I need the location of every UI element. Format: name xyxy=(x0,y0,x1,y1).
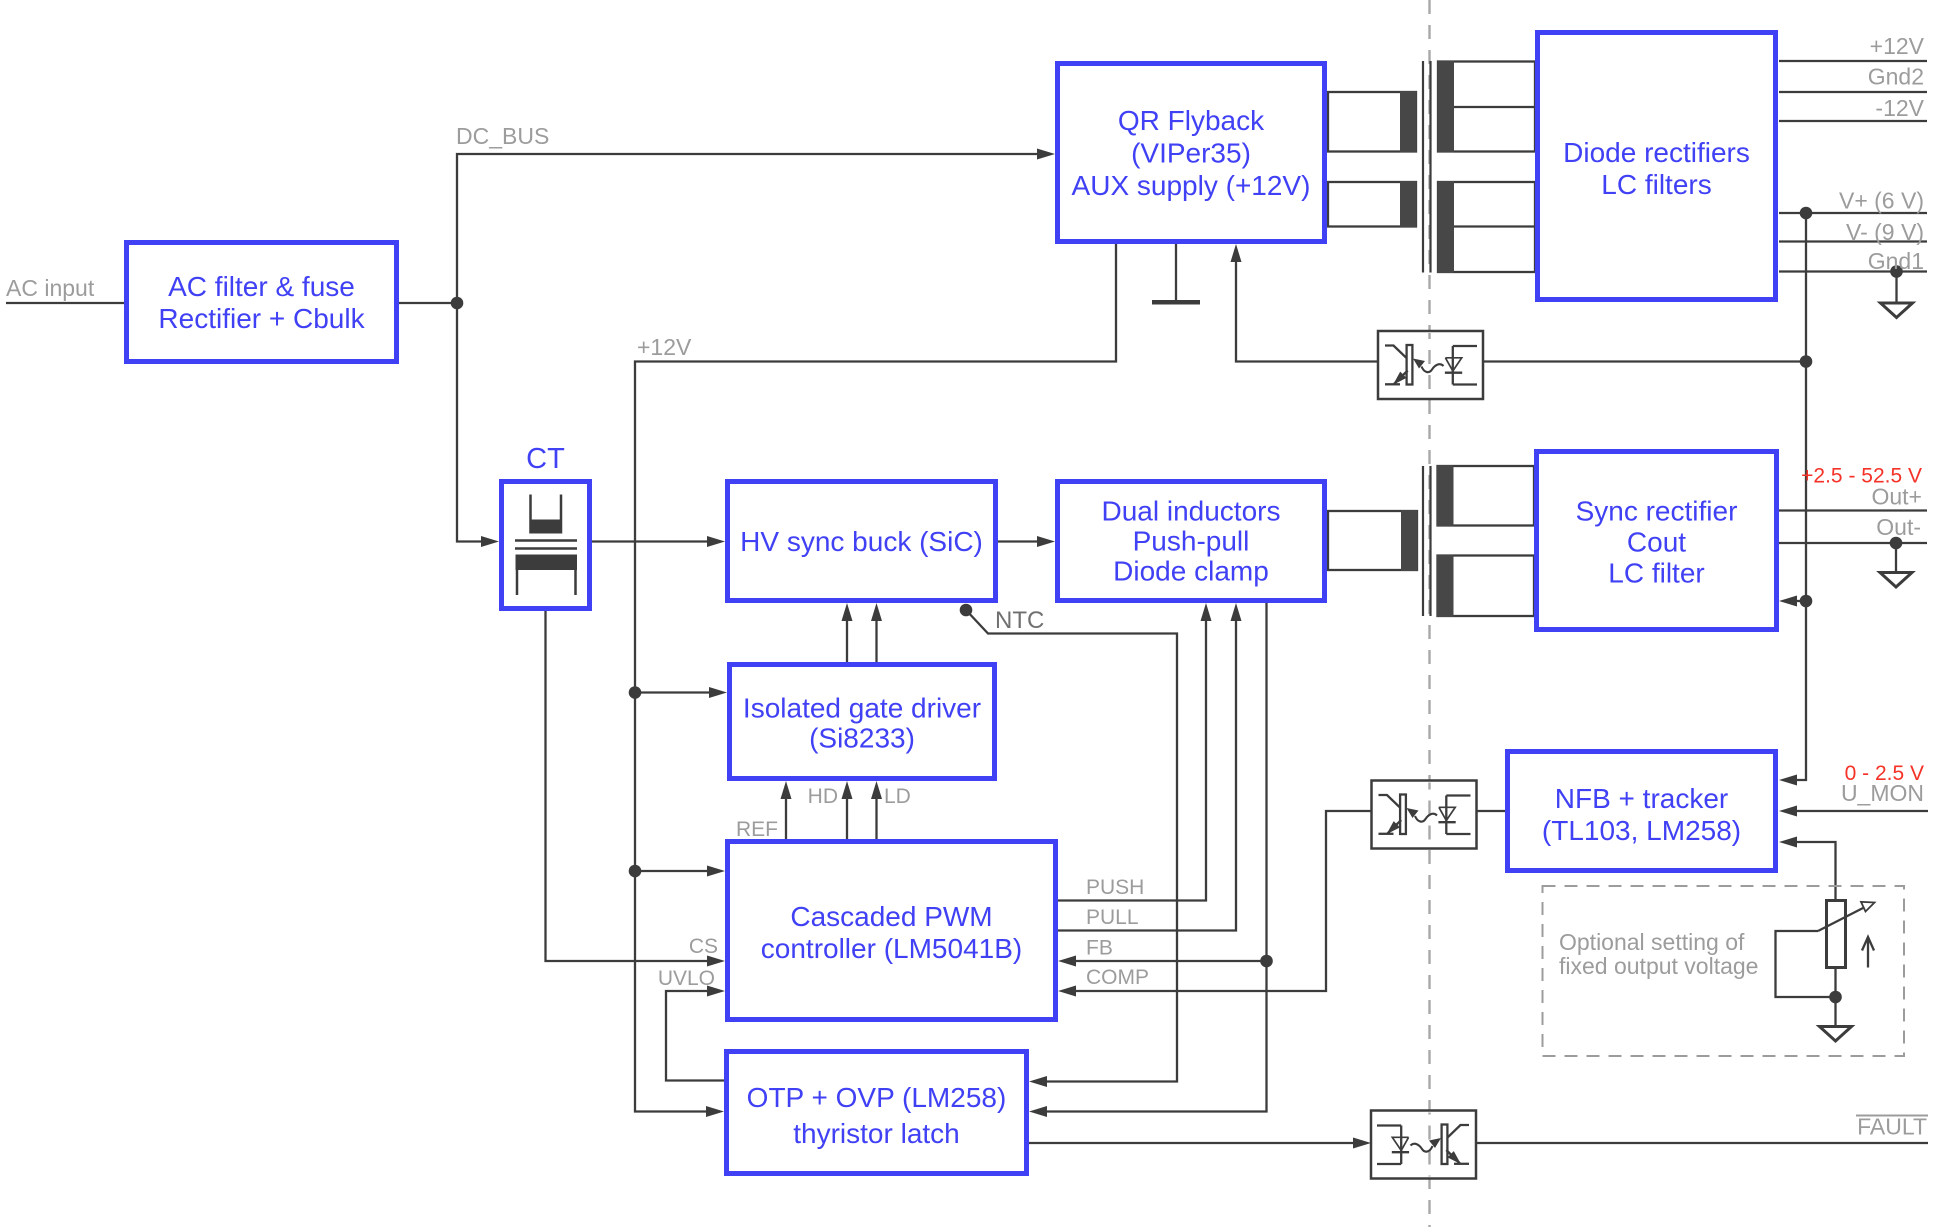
wire COMP from NFB opto to PWM xyxy=(1058,811,1371,997)
label FAULT with overline xyxy=(1856,1114,1928,1140)
wire Out+ line xyxy=(1779,509,1927,511)
node opto rail junction xyxy=(1800,355,1813,368)
wire AC filter output xyxy=(399,302,457,304)
wire V- output line xyxy=(1779,240,1927,242)
block diode rectifiers LC filters xyxy=(1538,33,1776,300)
svg-text:Cout: Cout xyxy=(1627,527,1686,558)
svg-text:Rectifier + Cbulk: Rectifier + Cbulk xyxy=(158,303,365,334)
wire CT to HV sync buck xyxy=(592,536,725,547)
wire potentiometer wiper return xyxy=(1776,931,1836,997)
node FB junction xyxy=(1260,955,1273,968)
svg-text:UVLO: UVLO xyxy=(658,967,715,990)
svg-text:Diode rectifiers: Diode rectifiers xyxy=(1563,137,1750,168)
potentiometer wiper arrow xyxy=(1818,902,1875,931)
wire potentiometer to NFB tracker xyxy=(1779,837,1836,900)
svg-text:FB: FB xyxy=(1086,937,1113,960)
svg-text:Gnd1: Gnd1 xyxy=(1868,248,1924,274)
wire AC input xyxy=(6,302,124,304)
svg-text:AC input: AC input xyxy=(6,275,95,301)
wire V+ output line xyxy=(1779,212,1927,214)
wire Gnd1 output line xyxy=(1779,270,1927,272)
svg-text:NTC: NTC xyxy=(995,607,1044,634)
svg-text:+12V: +12V xyxy=(637,334,692,360)
wire FB sense from dual inductors to PWM and OTP xyxy=(1029,603,1267,1117)
ground potentiometer symbol xyxy=(1820,1027,1852,1042)
svg-text:OTP + OVP (LM258): OTP + OVP (LM258) xyxy=(747,1082,1007,1113)
wire gate drive HD to HV buck xyxy=(842,603,853,662)
wire OTP fault output to opto xyxy=(1029,1138,1371,1149)
svg-text:Diode clamp: Diode clamp xyxy=(1113,556,1269,587)
isolation barrier dashed line xyxy=(1428,0,1430,1227)
wire HV sync buck to dual inductors xyxy=(998,536,1055,547)
transformer T2 primary winding xyxy=(1328,510,1418,571)
wire Gnd2 output line xyxy=(1779,91,1927,93)
wire opto to V+ rail xyxy=(1484,360,1806,362)
svg-text:Sync rectifier: Sync rectifier xyxy=(1576,496,1738,527)
optocoupler U1 aux feedback xyxy=(1378,331,1483,399)
optocoupler U3 fault xyxy=(1371,1111,1476,1179)
svg-text:FAULT: FAULT xyxy=(1857,1114,1927,1140)
voltage trim up arrow xyxy=(1862,937,1874,968)
node NTC tap xyxy=(960,604,973,617)
ground bar under QR flyback xyxy=(1152,300,1200,305)
transformer T1 primary winding 2 xyxy=(1328,181,1417,228)
wire V+ rail down right side xyxy=(1779,213,1806,786)
svg-text:V+ (6 V): V+ (6 V) xyxy=(1839,188,1924,214)
wire opto feedback to QR flyback xyxy=(1231,244,1378,362)
ground Out- symbol xyxy=(1880,543,1912,587)
wire DC_BUS to CT xyxy=(457,303,499,547)
svg-text:-12V: -12V xyxy=(1875,95,1924,121)
svg-text:(VIPer35): (VIPer35) xyxy=(1131,138,1251,169)
block CT current transformer xyxy=(502,482,590,609)
wire +12V output line xyxy=(1779,60,1927,62)
svg-text:Isolated gate driver: Isolated gate driver xyxy=(743,693,981,724)
svg-text:(TL103, LM258): (TL103, LM258) xyxy=(1542,815,1741,846)
svg-text:Gnd2: Gnd2 xyxy=(1868,64,1924,90)
svg-text:thyristor latch: thyristor latch xyxy=(793,1118,960,1149)
svg-text:Push-pull: Push-pull xyxy=(1133,526,1250,557)
svg-text:+12V: +12V xyxy=(1870,33,1925,59)
label optional setting text xyxy=(1559,929,1758,979)
node DC_BUS junction xyxy=(451,297,464,310)
wire +12V tap to PWM controller xyxy=(635,866,725,877)
svg-text:Out-: Out- xyxy=(1876,514,1921,540)
wire +12V tap to gate driver xyxy=(635,687,727,698)
wire NTC to OTP xyxy=(966,610,1177,1087)
potentiometer R trim body xyxy=(1827,901,1846,968)
node V+ junction xyxy=(1800,207,1813,220)
wire NFB opto to NFB tracker xyxy=(1475,810,1507,812)
wire potentiometer bottom xyxy=(1834,968,1836,1026)
wire +12V rail xyxy=(635,244,1116,1117)
wire LD arrow PWM to gate driver xyxy=(871,781,882,841)
transformer T2 secondary winding 1 xyxy=(1437,465,1534,527)
wire Out- line xyxy=(1779,542,1927,544)
wire HD arrow PWM to gate driver xyxy=(842,781,853,841)
block NFB tracker xyxy=(1508,752,1776,871)
wire gate drive LD to HV buck xyxy=(871,603,882,662)
node sync rectifier rail junction xyxy=(1800,595,1813,608)
block isolated gate driver xyxy=(730,665,995,779)
svg-text:LD: LD xyxy=(884,785,911,808)
transformer T1 primary winding 1 xyxy=(1328,91,1417,153)
wire PULL to dual inductors xyxy=(1058,603,1242,931)
optocoupler U2 NFB feedback xyxy=(1372,781,1477,849)
svg-text:COMP: COMP xyxy=(1086,966,1149,989)
svg-text:QR Flyback: QR Flyback xyxy=(1118,105,1265,136)
block dual inductors push-pull xyxy=(1058,482,1325,601)
block AC filter fuse rectifier xyxy=(127,243,397,362)
node +12V to gate driver junction xyxy=(629,686,642,699)
wire rail tap to sync rectifier xyxy=(1779,596,1806,607)
block cascaded PWM controller xyxy=(728,842,1056,1020)
svg-text:LC filters: LC filters xyxy=(1601,169,1711,200)
svg-text:Dual inductors: Dual inductors xyxy=(1102,496,1281,527)
wire FAULT output line xyxy=(1476,1142,1928,1144)
block OTP OVP thyristor latch xyxy=(727,1052,1027,1174)
svg-text:AC filter & fuse: AC filter & fuse xyxy=(168,271,355,302)
svg-text:CT: CT xyxy=(526,443,565,475)
wire QR flyback ground stub xyxy=(1175,244,1177,300)
transformer T1 secondary winding 1 with center tap xyxy=(1438,61,1536,153)
svg-text:AUX supply (+12V): AUX supply (+12V) xyxy=(1072,170,1311,201)
transformer T2 core xyxy=(1423,466,1431,616)
CT current transformer symbol xyxy=(515,495,577,596)
svg-text:controller (LM5041B): controller (LM5041B) xyxy=(761,933,1022,964)
svg-text:Optional setting of: Optional setting of xyxy=(1559,929,1745,955)
wire CS from CT to PWM controller xyxy=(546,611,726,967)
svg-text:DC_BUS: DC_BUS xyxy=(456,123,549,149)
transformer T2 secondary winding 2 xyxy=(1437,555,1534,618)
dashed box optional setting xyxy=(1543,886,1905,1056)
ground Gnd1 symbol xyxy=(1881,272,1913,318)
svg-text:HD: HD xyxy=(808,785,838,808)
node potentiometer ground junction xyxy=(1829,991,1842,1004)
node +12V to PWM junction xyxy=(629,865,642,878)
wire UVLO from OTP to PWM controller xyxy=(666,986,725,1081)
svg-text:U_MON: U_MON xyxy=(1841,780,1924,806)
svg-text:Cascaded PWM: Cascaded PWM xyxy=(790,901,992,932)
svg-text:Out+: Out+ xyxy=(1871,484,1922,510)
svg-text:HV sync buck (SiC): HV sync buck (SiC) xyxy=(740,526,983,557)
svg-text:NFB + tracker: NFB + tracker xyxy=(1555,783,1728,814)
svg-text:PULL: PULL xyxy=(1086,906,1139,929)
wire -12V output line xyxy=(1779,120,1927,122)
svg-text:PUSH: PUSH xyxy=(1086,876,1144,899)
transformer T1 secondary winding 2 with center tap xyxy=(1438,181,1536,273)
block sync rectifier xyxy=(1537,452,1777,630)
block HV sync buck xyxy=(728,482,996,601)
svg-text:fixed output voltage: fixed output voltage xyxy=(1559,953,1758,979)
node Out- ground junction xyxy=(1890,537,1903,550)
block QR flyback aux supply xyxy=(1058,64,1325,242)
node Gnd1 junction xyxy=(1890,265,1903,278)
wire U_MON input xyxy=(1779,806,1928,817)
svg-text:CS: CS xyxy=(689,935,718,958)
svg-text:V- (9 V): V- (9 V) xyxy=(1846,219,1924,245)
wire REF arrow PWM to gate driver xyxy=(781,781,792,841)
wire DC_BUS to QR flyback xyxy=(457,149,1055,304)
transformer T1 core xyxy=(1423,61,1431,273)
wire PUSH to dual inductors xyxy=(1058,603,1212,901)
svg-text:(Si8233): (Si8233) xyxy=(809,723,915,754)
svg-text:REF: REF xyxy=(736,818,778,841)
svg-text:LC filter: LC filter xyxy=(1608,558,1704,589)
